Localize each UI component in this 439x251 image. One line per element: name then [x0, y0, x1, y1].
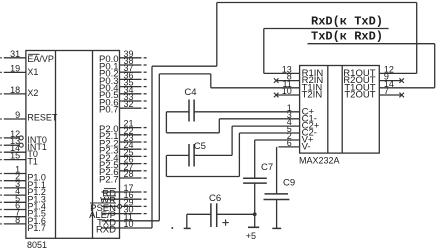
svg-text:+5: +5	[246, 231, 256, 241]
8051 pin 5 P1.4	[0, 201, 2, 203]
capacitor C9	[265, 193, 289, 195]
8051 pin 1 P1.0	[0, 173, 2, 175]
svg-text:P1.7: P1.7	[27, 223, 46, 233]
8051 pin 29 PSEN	[102, 205, 118, 207]
svg-text:MAX232A: MAX232A	[299, 156, 340, 166]
svg-text:C9: C9	[283, 177, 295, 188]
svg-text:18: 18	[10, 85, 20, 95]
svg-text:EA/VP: EA/VP	[27, 54, 54, 64]
svg-text:10: 10	[124, 219, 134, 229]
svg-text:P0.7: P0.7	[99, 105, 119, 116]
ground bar left of C6	[184, 227, 191, 229]
ground bar under C9	[272, 227, 281, 229]
8051 pin 38 P0.1	[120, 64, 142, 66]
wire V-(6) to C9	[278, 146, 299, 148]
svg-text:C7: C7	[261, 162, 273, 173]
wire C+(1) to C4	[194, 111, 300, 113]
8051 pin 21 P2.0	[120, 127, 142, 129]
capacitor C4	[188, 100, 190, 122]
8051 pin 31 EA/VP	[0, 57, 2, 59]
8051 pin 8 P1.7	[0, 223, 2, 225]
svg-text:32: 32	[124, 99, 134, 109]
8051 pin 35 P0.4	[120, 86, 142, 88]
svg-text:X1: X1	[27, 67, 38, 77]
svg-text:V-: V-	[302, 142, 311, 153]
8051 pin 27 P2.6	[120, 170, 142, 172]
terminal +5 bar	[248, 226, 259, 228]
svg-text:C4: C4	[184, 87, 196, 98]
wire C7 to +5 node	[254, 183, 256, 227]
8051 pin 11 TXD	[102, 220, 160, 222]
8051 pin 22 P2.1	[120, 134, 142, 136]
8051 pin 17 RD	[102, 191, 142, 193]
8051 pin 32 P0.7	[120, 107, 142, 109]
svg-text:31: 31	[10, 49, 20, 59]
IC U1 8051 body	[26, 51, 120, 239]
svg-text:8051: 8051	[27, 240, 47, 250]
8051 pin 10 RXD	[102, 227, 153, 229]
wire C1-(3) to C4 left plate	[166, 111, 189, 113]
8051 pin 14 T0	[0, 151, 2, 153]
svg-text:RxD(к TxD): RxD(к TxD)	[311, 15, 383, 29]
IC U2 MAX232A body	[300, 66, 380, 154]
wire C2-(5) to C5 left plate	[239, 132, 299, 134]
svg-text:RXD: RXD	[96, 224, 116, 235]
wire C6 right plate to +5 node	[217, 213, 255, 215]
8051 pin 16 WR	[102, 198, 142, 200]
MAX232A pin 7 T2OUT	[379, 94, 401, 96]
capacitor C7	[243, 177, 267, 179]
8051 pin 18 X2	[0, 93, 2, 95]
8051 pin 25 P2.4	[120, 155, 142, 157]
wire V+(2) to C7	[255, 139, 300, 141]
8051 pin 3 P1.2	[0, 187, 2, 189]
stray dot	[171, 227, 173, 229]
8051 pin 39 P0.0	[120, 57, 142, 59]
8051 pin 23 P2.2	[120, 141, 142, 143]
wire 8051 TXD to T1IN(11)	[158, 74, 160, 221]
wire C9 to ground	[276, 200, 278, 229]
8051 pin 6 P1.5	[0, 209, 2, 211]
svg-text:T1: T1	[27, 157, 38, 167]
wire R1IN(13) to RxD line	[264, 72, 300, 74]
8051 pin 34 P0.5	[120, 93, 142, 95]
8051 pin 9 RESET	[0, 118, 2, 120]
8051 pin 2 P1.1	[0, 180, 2, 182]
svg-text:RESET: RESET	[27, 113, 58, 123]
8051 pin 12 INT0	[0, 137, 2, 139]
wire T1OUT(14) to TxD line	[308, 43, 435, 45]
svg-text:19: 19	[10, 63, 20, 73]
8051 pin 30 ALE/P	[102, 213, 142, 215]
svg-text:28: 28	[124, 169, 134, 179]
capacitor C5	[188, 144, 190, 167]
capacitor C6	[210, 203, 212, 227]
8051 pin 26 P2.5	[120, 163, 142, 165]
svg-text:C5: C5	[194, 141, 206, 152]
8051 pin 33 P0.6	[120, 100, 142, 102]
svg-text:T2OUT: T2OUT	[344, 90, 375, 101]
8051 pin 36 P0.3	[120, 78, 142, 80]
8051 pin 28 P2.7	[120, 177, 142, 179]
svg-text:15: 15	[10, 151, 20, 161]
MAX232A pin 8 R2IN	[276, 80, 299, 82]
junction dot C6/C7/+5	[253, 212, 257, 216]
MAX232A pin 10 T2IN	[276, 94, 299, 96]
svg-text:X2: X2	[27, 88, 38, 98]
8051 pin 15 T1	[0, 159, 2, 161]
8051 pin 24 P2.3	[120, 148, 142, 150]
polarity + of C6	[222, 222, 228, 224]
MAX232A pin 9 R2OUT	[379, 80, 401, 82]
8051 pin 19 X1	[0, 71, 2, 73]
8051 pin 13 INT1	[0, 144, 2, 146]
svg-text:TxD(к RxD): TxD(к RxD)	[311, 30, 383, 44]
svg-text:T2IN: T2IN	[302, 90, 323, 101]
svg-text:P2.7: P2.7	[99, 174, 119, 185]
svg-text:8: 8	[15, 215, 20, 225]
wire C6 left plate to ground	[187, 213, 211, 215]
svg-text:9: 9	[15, 110, 20, 120]
8051 pin 37 P0.2	[120, 71, 142, 73]
svg-text:C6: C6	[209, 193, 221, 204]
8051 pin 7 P1.6	[0, 216, 2, 218]
wire C2+(4) to C5 right plate	[232, 125, 300, 127]
wire R1OUT(12) to 8051 RXD via top loop	[379, 72, 416, 74]
8051 pin 4 P1.3	[0, 194, 2, 196]
